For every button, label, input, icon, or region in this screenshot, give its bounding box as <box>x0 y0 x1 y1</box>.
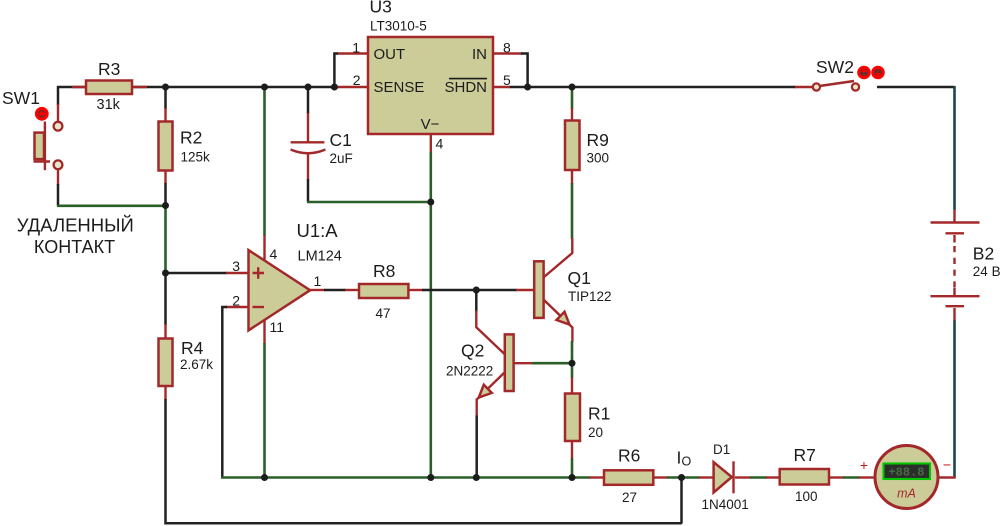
diode D1 cathode bar <box>732 461 734 493</box>
svg-text:R6: R6 <box>618 446 640 466</box>
wire pin11 green <box>263 343 266 478</box>
wire Q1 collector red <box>544 238 572 277</box>
pin C1 top red <box>307 113 309 142</box>
resistor R7 <box>780 469 829 485</box>
pin C1 bottom red <box>307 154 309 180</box>
op-amp minus sign <box>253 306 265 308</box>
pin U3 V- red <box>430 134 432 153</box>
svg-text:47: 47 <box>376 306 391 321</box>
wire SW1 bottom stem black <box>57 184 60 206</box>
svg-text:100: 100 <box>795 489 818 504</box>
svg-text:−: − <box>943 457 951 473</box>
svg-text:C1: C1 <box>330 130 352 150</box>
switch SW2 toggle button up <box>859 67 869 77</box>
junction rail IN <box>524 84 531 91</box>
junction rail pin4 <box>261 84 268 91</box>
op-amp U1:A triangle <box>249 250 311 330</box>
pin R4 bottom red <box>164 386 166 400</box>
svg-text:20: 20 <box>588 425 603 440</box>
resistor R3 <box>86 81 132 95</box>
battery B2 pin top red <box>953 210 955 222</box>
pin R9 bottom red <box>571 170 573 184</box>
svg-text:IN: IN <box>472 46 487 63</box>
wire OUT elbow black <box>334 54 338 88</box>
svg-text:300: 300 <box>587 151 610 166</box>
pin R2 bottom red <box>164 170 166 184</box>
switch SW1 button cap <box>35 133 45 160</box>
pin R7 right red <box>829 476 844 478</box>
wire IO node down black <box>680 478 683 524</box>
switch SW2 up arrow <box>862 69 866 76</box>
wire Q2 base red <box>515 362 534 364</box>
svg-text:R8: R8 <box>373 261 395 281</box>
resistor R2 <box>159 122 173 171</box>
svg-text:R4: R4 <box>181 338 204 358</box>
pin opamp V- red <box>263 320 265 344</box>
svg-text:2.67k: 2.67k <box>180 357 213 372</box>
pin opamp out red <box>310 289 325 291</box>
junction node IO <box>678 474 685 481</box>
wire C1 to pin4 green <box>307 201 431 204</box>
svg-text:LT3010-5: LT3010-5 <box>370 19 427 34</box>
IC U3 SHDN overline <box>449 78 487 80</box>
pin opamp minus red <box>226 306 250 308</box>
wire Q1 base black <box>476 289 517 292</box>
capacitor C1 bottom plate arc <box>291 150 326 154</box>
svg-text:КОНТАКТ: КОНТАКТ <box>34 237 115 257</box>
svg-text:SW2: SW2 <box>816 57 854 77</box>
svg-text:1: 1 <box>352 39 360 55</box>
switch SW2 toggle button down <box>873 67 883 77</box>
wire pin2 elbow black <box>222 307 227 478</box>
switch SW2 down arrow <box>876 69 880 76</box>
battery B2 cell1 stub <box>953 235 955 243</box>
junction node273 <box>162 270 169 277</box>
ammeter body <box>875 446 938 509</box>
wire Q2 collector red <box>476 311 505 355</box>
svg-text:8: 8 <box>503 39 511 55</box>
wire bottom green rail <box>221 476 590 479</box>
switch SW2 right terminal <box>852 83 859 90</box>
wire pin4 opamp green <box>263 87 266 236</box>
junction rail R1 <box>569 474 576 481</box>
switch SW1 cap base line <box>34 160 51 162</box>
wire R9 top green <box>571 87 574 109</box>
svg-text:Q2: Q2 <box>461 341 484 361</box>
svg-text:U3: U3 <box>370 0 392 17</box>
switch SW2 left terminal <box>813 83 820 90</box>
resistor R1 <box>565 394 580 442</box>
svg-text:TIP122: TIP122 <box>568 289 612 304</box>
pin U3 IN red <box>493 52 522 54</box>
junction Q1 emitter node <box>569 360 576 367</box>
wire SW2 right to corner black <box>877 86 955 89</box>
transistor Q1 base bar <box>534 261 543 318</box>
pin opamp V+ red <box>263 235 265 260</box>
pin R9 top red <box>571 108 573 121</box>
svg-text:4: 4 <box>436 136 444 152</box>
svg-text:B2: B2 <box>973 244 994 264</box>
junction rail pin11 <box>261 474 268 481</box>
wire D1 to R7 green <box>750 476 767 479</box>
junction rail OUT <box>331 84 338 91</box>
switch SW1 top terminal <box>54 122 63 131</box>
wire R7 to meter green <box>843 476 860 479</box>
ammeter display <box>884 464 931 480</box>
switch SW1 bottom terminal <box>54 160 63 169</box>
svg-text:R1: R1 <box>588 404 610 424</box>
wire R6 to IO green <box>667 476 700 479</box>
wire IN elbow black <box>521 54 528 88</box>
pin R6 left red <box>589 476 604 478</box>
pin meter plus red <box>859 476 875 478</box>
junction SW1 R2 <box>162 202 169 209</box>
wire SW1 top stem <box>57 86 60 105</box>
wire C1 top black <box>307 87 310 114</box>
op-amp plus sign <box>253 267 265 279</box>
svg-text:R7: R7 <box>794 445 816 465</box>
svg-text:SHDN: SHDN <box>444 79 487 96</box>
svg-text:11: 11 <box>270 319 285 335</box>
capacitor C1 top plate <box>291 141 325 143</box>
svg-text:3: 3 <box>232 258 240 274</box>
battery B2 cell1 long plate <box>931 221 980 223</box>
junction C1 V- <box>427 199 434 206</box>
svg-text:125k: 125k <box>181 150 211 165</box>
svg-text:D1: D1 <box>713 442 730 457</box>
pin U3 SHDN red <box>493 86 510 88</box>
svg-text:2: 2 <box>353 72 361 88</box>
svg-text:R3: R3 <box>98 59 120 79</box>
wire R2 top stub black <box>164 87 167 109</box>
wire Q1 emitter red <box>544 300 572 342</box>
resistor R6 <box>604 470 653 485</box>
wire Q2 emitter red <box>477 372 506 400</box>
svg-text:1N4001: 1N4001 <box>702 497 749 512</box>
junction rail V- <box>427 474 434 481</box>
wire Q2 emitter down red <box>476 399 478 417</box>
pin D1 anode red <box>699 476 714 478</box>
svg-text:4: 4 <box>270 246 278 262</box>
wire node363 green <box>571 363 574 378</box>
wire R1 bottom green <box>571 458 574 478</box>
wire R4 bottom black to feedback rail <box>166 399 682 523</box>
wire pin3 black <box>166 272 228 275</box>
diode D1 triangle <box>714 462 732 492</box>
pin U3 OUT red <box>337 52 368 54</box>
svg-text:LM124: LM124 <box>298 249 342 265</box>
switch SW1 toggle arrows <box>39 112 46 116</box>
wire R9 to Q1 collector green <box>571 183 574 239</box>
pin R6 right red <box>653 476 668 478</box>
svg-text:V−: V− <box>421 116 440 133</box>
junction rail Q2 emitter <box>473 474 480 481</box>
pin SW1 top red <box>57 104 59 121</box>
battery B2 cell2 short plate <box>946 305 965 307</box>
wire out black <box>324 289 346 292</box>
switch SW1 toggle button <box>37 109 48 120</box>
pin R3 right red <box>132 86 147 88</box>
svg-text:mA: mA <box>897 487 916 501</box>
battery B2 cell2 long plate <box>931 295 980 297</box>
wire battery bottom vertical teal <box>953 320 956 478</box>
svg-text:U1:A: U1:A <box>297 220 339 241</box>
wire Q2 base green <box>532 362 572 365</box>
pin R1 bottom red <box>571 441 573 459</box>
svg-text:Q1: Q1 <box>568 268 591 288</box>
svg-text:1: 1 <box>314 273 322 289</box>
wire battery top vertical teal <box>953 86 956 210</box>
pin R7 left red <box>766 476 780 478</box>
battery B2 cell2 stub top <box>953 288 955 295</box>
wire top rail left black <box>57 86 338 89</box>
svg-text:УДАЛЕННЫЙ: УДАЛЕННЫЙ <box>17 215 134 236</box>
junction rail R9 <box>569 84 576 91</box>
resistor R9 <box>565 121 580 171</box>
wire meter right red <box>938 476 956 478</box>
pin U3 SENSE red <box>334 86 368 88</box>
wire R2 bottom black <box>164 183 167 206</box>
wire V- vertical green <box>429 152 432 478</box>
pin R4 top red <box>164 324 166 339</box>
pin opamp plus red <box>226 272 250 274</box>
svg-text:R9: R9 <box>587 130 609 150</box>
svg-text:+: + <box>860 457 868 473</box>
pin R8 right red <box>409 289 424 291</box>
junction rail C1 <box>305 84 312 91</box>
transistor Q2 base bar <box>505 334 514 391</box>
battery B2 pin bottom red <box>953 308 955 321</box>
svg-text:OUT: OUT <box>374 46 406 63</box>
pin SW1 bottom red <box>57 170 59 185</box>
pin R3 left red <box>72 86 86 88</box>
switch SW1 actuator line <box>44 122 46 171</box>
resistor R4 <box>159 339 173 387</box>
junction rail R2 <box>162 84 169 91</box>
transistor Q1 emitter arrow <box>557 312 570 325</box>
wire node273 to R4 black <box>164 273 167 325</box>
wire SW1 bottom horizontal green <box>57 205 166 208</box>
svg-text:2uF: 2uF <box>330 151 353 166</box>
svg-text:O: O <box>682 455 692 469</box>
svg-text:2: 2 <box>232 293 240 309</box>
svg-text:5: 5 <box>503 72 511 88</box>
svg-text:27: 27 <box>622 490 637 505</box>
pin R8 left red <box>345 289 360 291</box>
pin R2 top red <box>164 108 166 122</box>
wire Q1 emitter green <box>571 341 574 362</box>
IC U3 body <box>368 37 493 134</box>
wire C1 bottom black <box>307 179 310 202</box>
svg-text:SENSE: SENSE <box>374 79 425 96</box>
wire Q2 collector black <box>475 290 478 312</box>
switch SW2 lever <box>820 81 855 86</box>
svg-text:R2: R2 <box>180 128 202 148</box>
svg-text:2N2222: 2N2222 <box>446 364 493 379</box>
pin R1 top red <box>571 378 573 395</box>
svg-text:24 В: 24 В <box>973 264 1000 279</box>
wire top rail right black <box>509 86 796 89</box>
transistor Q2 emitter arrow <box>479 385 492 398</box>
battery B2 cell1 short plate <box>946 232 965 234</box>
pin D1 cathode red <box>735 476 751 478</box>
wire node205 to node273 green <box>164 206 167 274</box>
svg-text:SW1: SW1 <box>2 88 40 108</box>
svg-text:+88.8: +88.8 <box>888 466 924 480</box>
pin SW2 left red <box>795 86 813 88</box>
wire Q2 emitter black <box>475 416 478 478</box>
battery B2 dashed link <box>953 246 955 288</box>
junction R8 Q1 base <box>473 287 480 294</box>
resistor R8 <box>359 284 408 298</box>
svg-text:31k: 31k <box>97 97 121 113</box>
pin Q1 base red <box>516 289 534 291</box>
wire R8 to Q1 node black <box>422 289 477 292</box>
